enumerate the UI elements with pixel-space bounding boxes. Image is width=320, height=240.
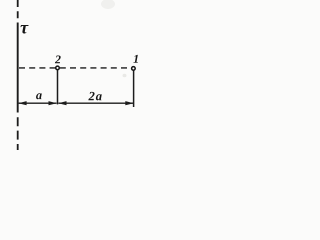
arrowhead a right — [49, 101, 57, 105]
node 1 (source circle) — [132, 67, 136, 71]
dimension line a — [19, 102, 57, 104]
arrowhead 2a left — [58, 101, 66, 105]
arrowhead a left — [18, 101, 26, 105]
node 2 (source circle) — [56, 66, 60, 70]
wire: extension below node 1 — [133, 69, 135, 107]
dimension line 2a — [58, 102, 133, 104]
screen axis tau: dashed bottom segment — [17, 117, 19, 150]
screen axis tau: solid middle segment — [17, 23, 19, 113]
label 1 — [133, 55, 138, 63]
horizontal dashed sight line through sources 2 and 1 — [19, 67, 131, 69]
label 2a — [88, 92, 101, 100]
scan smudge left of node 1 — [123, 74, 127, 78]
label tau — [20, 25, 28, 33]
scan smudge top right — [101, 0, 115, 9]
label a — [36, 93, 42, 99]
wire: extension below node 2 — [57, 69, 59, 104]
arrowhead 2a right — [125, 101, 133, 105]
label 2 — [55, 55, 61, 63]
screen axis tau: dashed top segment — [17, 0, 19, 22]
